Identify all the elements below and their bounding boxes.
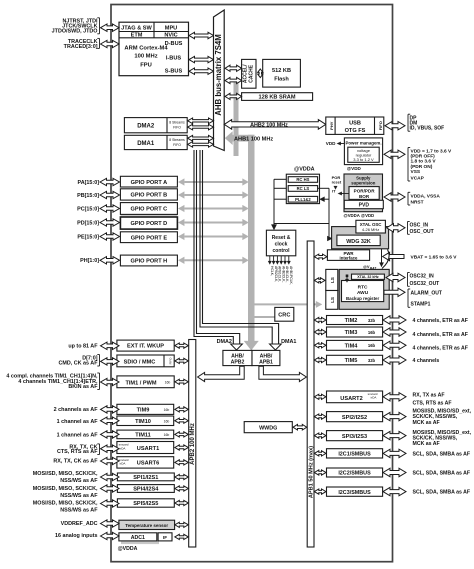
svg-text:SCL, SDA, SMBA as AF: SCL, SDA, SMBA as AF — [413, 471, 471, 477]
svg-text:512 KB: 512 KB — [272, 68, 291, 74]
svg-text:TIM1 / PWM: TIM1 / PWM — [125, 381, 156, 387]
svg-text:GPIO PORT B: GPIO PORT B — [131, 193, 168, 199]
svg-text:VDDREF_ADC: VDDREF_ADC — [61, 521, 98, 527]
svg-text:FIFO: FIFO — [173, 126, 181, 130]
svg-text:Power managem.: Power managem. — [345, 140, 381, 145]
svg-text:VDDA, VSSA: VDDA, VSSA — [411, 193, 441, 199]
svg-text:4 channels, ETR as AF: 4 channels, ETR as AF — [413, 332, 468, 338]
svg-text:GPIO PORT H: GPIO PORT H — [131, 259, 168, 265]
svg-text:AHB1PCLK,: AHB1PCLK, — [289, 266, 293, 285]
svg-text:PD[15:0]: PD[15:0] — [77, 220, 99, 226]
svg-text:PVD: PVD — [359, 203, 370, 209]
svg-text:MOSI/SD, MISO, SCK/CK,: MOSI/SD, MISO, SCK/CK, — [33, 486, 98, 492]
svg-text:TIM11: TIM11 — [135, 432, 151, 438]
svg-text:WWDG: WWDG — [259, 425, 277, 431]
svg-text:(PDR OFF): (PDR OFF) — [411, 154, 436, 160]
svg-text:DMA2: DMA2 — [217, 339, 232, 345]
svg-text:2 channels as AF: 2 channels as AF — [54, 407, 99, 413]
svg-text:Backup register: Backup register — [346, 296, 379, 301]
svg-text:ID, VBUS, SOF: ID, VBUS, SOF — [410, 126, 445, 132]
svg-text:I2C3/SMBUS: I2C3/SMBUS — [338, 490, 371, 496]
svg-text:irDA: irDA — [371, 396, 377, 400]
svg-text:EXT IT. WKUP: EXT IT. WKUP — [127, 344, 164, 350]
svg-text:4 channels, ETR as AF: 4 channels, ETR as AF — [413, 318, 468, 324]
svg-text:(PDR ON): (PDR ON) — [411, 164, 433, 170]
svg-text:OTG FS: OTG FS — [345, 128, 366, 134]
svg-text:LS: LS — [330, 277, 335, 283]
svg-text:RTC: RTC — [358, 285, 368, 291]
svg-text:AHB2CLK,: AHB2CLK, — [281, 266, 285, 282]
svg-text:FIFO: FIFO — [173, 143, 181, 147]
svg-text:16b: 16b — [368, 330, 376, 335]
svg-text:TIM4: TIM4 — [345, 343, 359, 349]
svg-text:USART1: USART1 — [137, 446, 159, 452]
svg-text:SCL, SDA, SMBA as AF: SCL, SDA, SMBA as AF — [413, 490, 471, 496]
svg-text:VBAT = 1.65 to 3.6 V: VBAT = 1.65 to 3.6 V — [411, 255, 458, 261]
svg-text:TRACED[3:0]: TRACED[3:0] — [64, 44, 98, 50]
svg-text:JTDO/SWD, JTDO: JTDO/SWD, JTDO — [52, 29, 98, 35]
svg-text:POR/PDR: POR/PDR — [354, 188, 376, 193]
svg-text:1 channel as AF: 1 channel as AF — [57, 432, 99, 438]
svg-text:MPU: MPU — [165, 26, 177, 32]
svg-text:TIM10: TIM10 — [135, 419, 151, 425]
svg-text:16b: 16b — [164, 408, 170, 412]
svg-text:TIM5: TIM5 — [345, 358, 358, 364]
svg-text:PB[15:0]: PB[15:0] — [77, 193, 99, 199]
svg-text:@V: @V — [363, 264, 370, 269]
svg-text:PA[15:0]: PA[15:0] — [78, 180, 100, 186]
svg-text:AHB1CLK,: AHB1CLK, — [285, 266, 289, 282]
svg-text:Reset &: Reset & — [272, 235, 291, 241]
svg-text:SPI5/I2S5: SPI5/I2S5 — [133, 501, 158, 507]
svg-text:AHB1 100 MHz: AHB1 100 MHz — [234, 136, 273, 142]
svg-text:APB1 50 MHz (max): APB1 50 MHz (max) — [308, 446, 314, 498]
svg-text:NRST: NRST — [411, 200, 424, 206]
svg-text:@VDDA: @VDDA — [294, 167, 315, 173]
svg-text:16b: 16b — [164, 419, 170, 423]
svg-text:1 channel as AF: 1 channel as AF — [57, 419, 99, 425]
svg-text:@VDDA @VDD: @VDDA @VDD — [344, 213, 375, 218]
svg-text:I2C1/SMBUS: I2C1/SMBUS — [338, 451, 371, 457]
svg-text:TIM3: TIM3 — [345, 330, 358, 336]
svg-text:NSS/WS as AF: NSS/WS as AF — [60, 508, 98, 514]
svg-text:D-BUS: D-BUS — [165, 41, 183, 47]
svg-text:NSS/WS as AF: NSS/WS as AF — [60, 493, 98, 499]
svg-text:100 MHz: 100 MHz — [134, 54, 157, 60]
svg-text:3.3 to 1.2 V: 3.3 to 1.2 V — [353, 157, 374, 162]
svg-text:TIM9: TIM9 — [137, 407, 150, 413]
svg-text:DMA1: DMA1 — [281, 339, 296, 345]
svg-text:APB2 100 MHz: APB2 100 MHz — [190, 423, 196, 465]
svg-text:AHB bus-matrix 7S4M: AHB bus-matrix 7S4M — [214, 34, 223, 115]
svg-text:PE[15:0]: PE[15:0] — [77, 234, 99, 240]
svg-text:LS: LS — [330, 297, 335, 303]
svg-text:OSC_OUT: OSC_OUT — [410, 229, 434, 235]
svg-text:1.8 to 3.6 V: 1.8 to 3.6 V — [411, 159, 437, 165]
svg-text:MOSI/SD, MISO, SCK/CK,: MOSI/SD, MISO, SCK/CK, — [33, 471, 98, 477]
svg-text:IT: IT — [332, 189, 336, 194]
svg-text:supervision: supervision — [351, 181, 375, 186]
svg-text:GPIO PORT E: GPIO PORT E — [131, 235, 168, 241]
svg-text:@VDD: @VDD — [347, 166, 362, 171]
svg-text:DMA2: DMA2 — [137, 123, 155, 129]
svg-text:RX, TX as AF: RX, TX as AF — [413, 392, 445, 398]
svg-text:S-BUS: S-BUS — [165, 69, 183, 75]
svg-text:4-26 MHz: 4-26 MHz — [362, 227, 379, 232]
svg-text:HCLK,: HCLK, — [270, 266, 274, 276]
svg-text:CTS, RTS as AF: CTS, RTS as AF — [413, 400, 452, 406]
svg-text:GPIO PORT D: GPIO PORT D — [131, 221, 168, 227]
svg-text:PC[15:0]: PC[15:0] — [77, 206, 99, 212]
svg-text:APB2CLK,: APB2CLK, — [274, 266, 278, 282]
svg-text:GPIO PORT C: GPIO PORT C — [131, 207, 168, 213]
svg-text:4 channels, ETR as AF: 4 channels, ETR as AF — [413, 345, 468, 351]
svg-text:OSC_IN: OSC_IN — [410, 222, 429, 228]
svg-text:VDD: VDD — [326, 141, 336, 146]
svg-text:SPI4/I2S4: SPI4/I2S4 — [133, 487, 159, 493]
svg-text:BOR: BOR — [359, 194, 370, 199]
svg-text:RX, TX, CK as AF: RX, TX, CK as AF — [53, 459, 98, 465]
svg-text:AHB2 100 MHz: AHB2 100 MHz — [250, 123, 288, 129]
svg-text:CMD, CK as AF: CMD, CK as AF — [58, 361, 98, 367]
svg-text:16 analog inputs: 16 analog inputs — [55, 533, 98, 539]
svg-text:GPIO PORT A: GPIO PORT A — [131, 180, 167, 186]
svg-text:Temperature sensor: Temperature sensor — [125, 523, 168, 528]
svg-text:MOSI/SD, MISO, SCK/CK,: MOSI/SD, MISO, SCK/CK, — [33, 501, 98, 507]
svg-text:32b: 32b — [368, 358, 376, 363]
svg-text:FIFO: FIFO — [378, 121, 383, 130]
svg-text:TIM2: TIM2 — [345, 318, 358, 324]
svg-text:USART2: USART2 — [340, 396, 362, 402]
svg-text:AHB/: AHB/ — [231, 353, 244, 359]
svg-text:up to 81 AF: up to 81 AF — [68, 344, 98, 350]
svg-text:irDA: irDA — [120, 446, 126, 450]
svg-text:I2C2/SMBUS: I2C2/SMBUS — [338, 471, 371, 477]
svg-text:FIFO: FIFO — [168, 357, 172, 364]
svg-text:AHB/: AHB/ — [260, 353, 273, 359]
svg-text:WDG 32K: WDG 32K — [346, 239, 371, 245]
svg-text:PLL1&2: PLL1&2 — [295, 197, 311, 202]
svg-text:USB: USB — [349, 121, 361, 127]
svg-text:irDA: irDA — [120, 462, 126, 466]
svg-text:ETM: ETM — [131, 33, 143, 39]
svg-text:CACHE: CACHE — [248, 64, 254, 82]
svg-text:16b: 16b — [368, 343, 376, 348]
svg-text:Flash: Flash — [274, 77, 289, 83]
svg-text:JTAG & SW: JTAG & SW — [121, 26, 152, 32]
svg-text:SPI1/I2S1: SPI1/I2S1 — [133, 475, 158, 481]
svg-text:clock: clock — [275, 242, 288, 248]
svg-text:DMA1: DMA1 — [137, 141, 155, 147]
svg-text:CTS, RTS as AF: CTS, RTS as AF — [57, 449, 98, 455]
svg-text:VSS: VSS — [411, 169, 421, 175]
svg-text:APB1CLK,: APB1CLK, — [278, 266, 282, 282]
svg-text:8 Streams: 8 Streams — [169, 138, 185, 142]
svg-text:CRC: CRC — [278, 313, 290, 319]
svg-text:STAMP1: STAMP1 — [411, 302, 431, 308]
svg-text:XTAL 32 kHz: XTAL 32 kHz — [357, 275, 379, 279]
svg-text:16b: 16b — [165, 381, 171, 385]
svg-text:NVIC: NVIC — [164, 33, 177, 39]
svg-text:VDD = 1.7 to 3.6 V: VDD = 1.7 to 3.6 V — [411, 148, 452, 154]
svg-text:NSS/WS as AF: NSS/WS as AF — [60, 478, 98, 484]
svg-text:SPI3/I2S3: SPI3/I2S3 — [342, 434, 367, 440]
svg-text:@VDDA: @VDDA — [118, 546, 138, 552]
svg-text:IF: IF — [163, 535, 167, 540]
svg-text:MCK as AF: MCK as AF — [413, 441, 440, 447]
svg-text:SDIO / MMC: SDIO / MMC — [124, 360, 156, 366]
svg-text:VCAP: VCAP — [411, 176, 425, 182]
svg-text:MCK as AF: MCK as AF — [413, 420, 440, 426]
svg-text:8 Streams: 8 Streams — [169, 121, 185, 125]
svg-text:RC HS: RC HS — [296, 177, 309, 182]
svg-text:APB2: APB2 — [231, 360, 245, 366]
svg-text:control: control — [273, 248, 291, 254]
svg-text:USART6: USART6 — [137, 461, 159, 467]
svg-text:ADC1: ADC1 — [131, 535, 145, 541]
svg-text:reset: reset — [332, 180, 342, 185]
svg-text:PHY: PHY — [329, 121, 334, 130]
svg-text:SCL, SDA, SMBA as AF: SCL, SDA, SMBA as AF — [413, 451, 471, 457]
svg-text:FPU: FPU — [140, 63, 152, 69]
svg-text:SPI2/I2S2: SPI2/I2S2 — [342, 415, 367, 421]
svg-text:ARM Cortex-M4: ARM Cortex-M4 — [124, 46, 168, 52]
svg-text:32b: 32b — [368, 318, 376, 323]
svg-text:ALARM_OUT: ALARM_OUT — [411, 290, 442, 296]
svg-text:APB1: APB1 — [259, 360, 273, 366]
svg-text:16b: 16b — [164, 433, 170, 437]
svg-text:OSC32_OUT: OSC32_OUT — [410, 281, 440, 287]
svg-text:4 channels: 4 channels — [413, 358, 440, 364]
svg-text:OSC32_IN: OSC32_IN — [410, 274, 435, 280]
svg-text:interface: interface — [340, 256, 359, 261]
svg-text:RC LS: RC LS — [297, 186, 310, 191]
svg-text:BKIN as AF: BKIN as AF — [68, 384, 98, 390]
svg-text:PH[1:0]: PH[1:0] — [80, 258, 99, 264]
svg-text:I-BUS: I-BUS — [166, 56, 181, 62]
svg-text:128 KB SRAM: 128 KB SRAM — [259, 95, 296, 101]
